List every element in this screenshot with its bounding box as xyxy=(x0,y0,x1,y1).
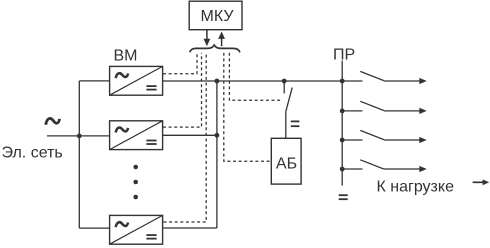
battery АБ box xyxy=(271,138,301,184)
feeder switch SW1 xyxy=(340,71,427,84)
arrow to loads xyxy=(473,179,490,185)
wire ВМ1 output main DC line xyxy=(163,80,343,82)
junction DC bus / ВМ1 xyxy=(215,79,220,84)
junction mains node xyxy=(77,134,82,139)
arrow МКУ monitoring input (up) xyxy=(218,32,225,47)
svg-text:ПР: ПР xyxy=(333,47,355,64)
wire battery branch lower xyxy=(285,112,287,139)
rectifier module ВМ2 xyxy=(110,121,163,150)
svg-text:К нагрузке: К нагрузке xyxy=(377,178,455,195)
feeder switch SW4 xyxy=(340,160,427,172)
ellipsis dots (more modules) xyxy=(133,165,138,200)
svg-text:ВМ: ВМ xyxy=(114,48,138,65)
svg-text:АБ: АБ xyxy=(276,155,297,172)
control unit МКУ box U1 xyxy=(189,1,242,30)
mains AC symbol ~ xyxy=(46,119,60,125)
svg-text:МКУ: МКУ xyxy=(201,8,235,25)
distribution bus ПР vertical wire xyxy=(341,61,343,186)
svg-text:Эл. сеть: Эл. сеть xyxy=(2,144,63,161)
rectifier module ВМ3 xyxy=(110,215,163,244)
rectifier module ВМ1 xyxy=(110,66,163,95)
wire battery branch upper xyxy=(283,81,285,93)
DC bus vertical wire xyxy=(216,81,218,228)
junction DC bus / ВМ2 xyxy=(215,133,220,138)
control line ВМ3 to МКУ (dashed) xyxy=(164,53,207,222)
control line ВМ2 to МКУ (dashed) xyxy=(163,53,202,127)
wire mains horizontal xyxy=(47,135,110,137)
wire mains to ВМ1 xyxy=(79,80,110,82)
wire ВМ2 output xyxy=(163,134,217,136)
brace grouping control/monitoring lines xyxy=(190,45,240,52)
junction battery branch xyxy=(282,79,287,84)
arrow МКУ control output (down) xyxy=(204,30,211,47)
feeder switch SW3 xyxy=(340,130,427,143)
wire mains to ВМ3 xyxy=(79,227,110,229)
control line МКУ to battery contactor (dashed) xyxy=(229,53,280,101)
DC polarity mark = under ПР bus xyxy=(339,195,348,199)
battery contactor blade (open switch) xyxy=(286,88,292,112)
feeder switch SW2 xyxy=(340,101,427,114)
control line ВМ1 to МКУ (dashed) xyxy=(163,53,197,74)
monitoring line МКУ to АБ (dashed) xyxy=(224,53,271,161)
DC polarity mark = at battery branch xyxy=(291,121,300,126)
wire mains vertical distribution xyxy=(78,81,80,228)
wire ВМ3 output xyxy=(163,227,217,229)
